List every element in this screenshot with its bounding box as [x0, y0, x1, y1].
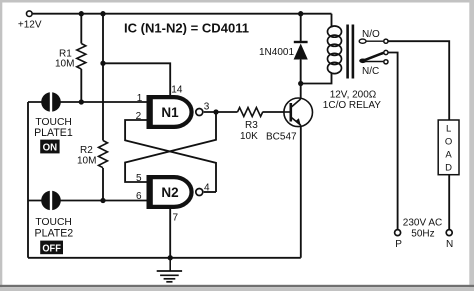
node N1 output	[213, 109, 218, 114]
node ground junction	[168, 255, 173, 260]
svg-text:+12V: +12V	[18, 20, 42, 31]
wire emitter down to bottom rail	[300, 125, 302, 258]
svg-text:10M: 10M	[55, 59, 74, 70]
svg-text:1: 1	[137, 93, 143, 104]
svg-text:7: 7	[173, 213, 179, 224]
svg-text:L: L	[446, 124, 451, 135]
wire coil bottom to collector node	[301, 73, 332, 84]
svg-text:OFF: OFF	[42, 243, 61, 254]
wire N1 pin2 to N2 output (cross-couple)	[125, 120, 216, 192]
svg-text:PLATE2: PLATE2	[35, 227, 74, 239]
node rail-R2	[100, 11, 105, 16]
relay core bars	[346, 25, 349, 79]
wire +12V rail	[33, 13, 332, 15]
svg-text:1N4001: 1N4001	[259, 47, 294, 58]
svg-text:4: 4	[204, 183, 210, 194]
svg-text:2: 2	[136, 111, 142, 122]
terminal +12V	[27, 11, 33, 17]
node rail-diode	[298, 11, 303, 16]
svg-text:5: 5	[136, 173, 142, 184]
wire bottom rail	[28, 257, 301, 259]
svg-text:N1: N1	[161, 105, 179, 120]
wire R1 column	[80, 14, 82, 102]
wire touch plate1 row to N1 pin1	[28, 101, 147, 103]
svg-text:R2: R2	[80, 145, 93, 156]
svg-text:P: P	[395, 239, 402, 250]
wire N2 output up	[204, 191, 216, 193]
node rail-R1	[79, 11, 84, 16]
wire coil top from rail	[331, 14, 333, 28]
svg-text:12V, 200Ω: 12V, 200Ω	[330, 90, 377, 101]
resistor R2	[99, 141, 108, 168]
wire N/O contact to right rail	[389, 41, 450, 120]
svg-text:N/O: N/O	[362, 29, 380, 40]
resistor R1	[77, 44, 86, 70]
NAND gate N1 (CD4011)	[136, 85, 210, 130]
svg-text:ON: ON	[43, 143, 58, 154]
wire LOAD to N terminal	[448, 175, 450, 230]
relay contact N/O	[359, 29, 388, 43]
wire R2 column	[102, 14, 104, 201]
wire N1 output to N2 pin5 (cross-couple)	[125, 112, 216, 182]
wire left rail	[27, 102, 29, 258]
svg-text:IC (N1-N2) = CD4011: IC (N1-N2) = CD4011	[124, 20, 249, 35]
wire collector	[300, 60, 302, 99]
node plate1-R1	[79, 99, 84, 104]
svg-text:D: D	[445, 163, 452, 174]
svg-text:PLATE1: PLATE1	[34, 127, 73, 139]
relay contact N/C	[362, 60, 388, 77]
ground	[157, 258, 182, 282]
touch plate 2	[35, 190, 74, 254]
svg-text:10M: 10M	[77, 156, 96, 167]
terminal N	[446, 230, 452, 236]
svg-text:O: O	[445, 137, 452, 148]
touch plate 1	[34, 92, 73, 154]
svg-text:10K: 10K	[240, 131, 258, 142]
wire N1 output to R3	[204, 111, 284, 113]
node plate2-R2	[100, 198, 105, 203]
node pin14 branch	[100, 61, 105, 66]
svg-text:TOUCH: TOUCH	[35, 217, 71, 228]
resistor R3	[238, 108, 263, 117]
svg-text:BC547: BC547	[266, 132, 297, 143]
NAND gate N2 (CD4011)	[136, 173, 210, 224]
svg-text:N2: N2	[161, 185, 178, 200]
terminal P	[395, 230, 401, 236]
node collector-coil	[298, 81, 303, 86]
wire diode top	[300, 14, 302, 42]
svg-text:1C/O RELAY: 1C/O RELAY	[323, 100, 381, 111]
svg-text:14: 14	[171, 85, 183, 96]
wire pin14 branch	[103, 63, 170, 95]
svg-text:N: N	[446, 239, 453, 250]
svg-text:3: 3	[204, 102, 210, 113]
wire relay pole to P terminal	[389, 53, 398, 230]
relay coil	[328, 26, 342, 74]
svg-text:R3: R3	[245, 120, 258, 131]
transistor Q1 BC547	[266, 98, 313, 143]
diode D1 1N4001	[259, 42, 308, 84]
load box	[438, 120, 459, 175]
svg-text:6: 6	[136, 191, 142, 202]
svg-text:N/C: N/C	[362, 66, 379, 77]
svg-text:A: A	[445, 150, 452, 161]
svg-text:50Hz: 50Hz	[411, 229, 434, 240]
wire touch plate2 row to N2 pin6	[28, 200, 147, 202]
wire N2 pin7 to ground rail	[169, 209, 171, 258]
relay pole arm	[359, 50, 388, 63]
svg-text:230V AC: 230V AC	[403, 218, 442, 229]
